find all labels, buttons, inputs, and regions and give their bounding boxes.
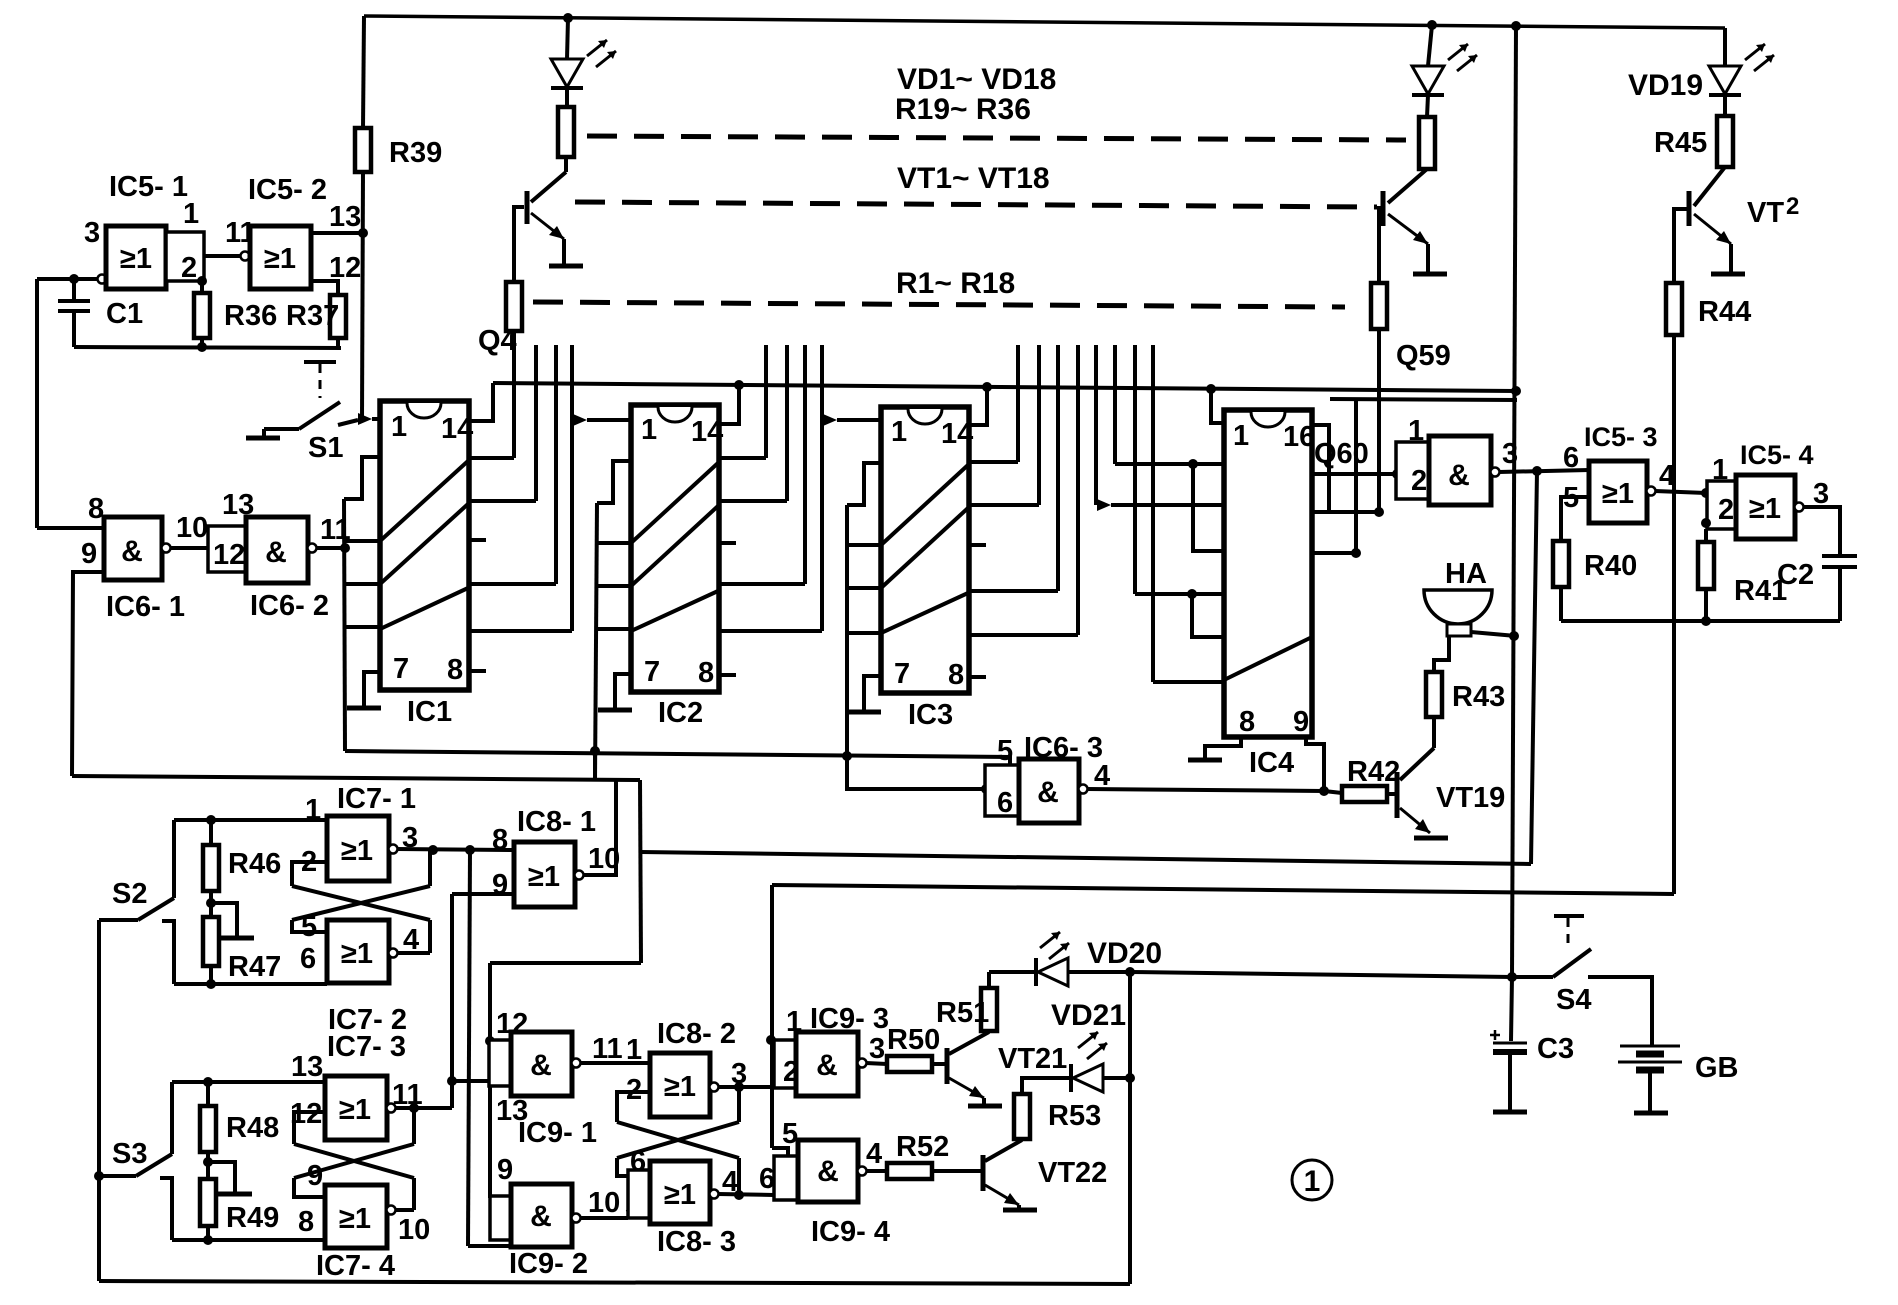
svg-text:9: 9 bbox=[492, 869, 508, 901]
resistor R51 bbox=[981, 988, 997, 1031]
resistor R39 bbox=[355, 128, 371, 172]
node C1 top bbox=[69, 274, 79, 284]
wire X1 diag a bbox=[292, 886, 430, 920]
resistor R41 bbox=[1698, 542, 1714, 589]
svg-text:1: 1 bbox=[626, 1034, 642, 1066]
wire IC6-2 out bbox=[316, 546, 344, 550]
transistor VT22 base bar bbox=[981, 1155, 986, 1191]
transistor VT21 collector bbox=[949, 1032, 989, 1054]
wire VT20 base bbox=[1674, 209, 1689, 283]
label R41 bbox=[1734, 575, 1787, 607]
wire C3 bottom bbox=[1508, 1052, 1512, 1111]
ground IC4 bbox=[1188, 758, 1222, 763]
wire R52 to VT22 bbox=[930, 1169, 983, 1173]
label S2 bbox=[112, 878, 147, 910]
wire S3 lower post bbox=[170, 1179, 174, 1240]
svg-text:≥1: ≥1 bbox=[339, 1094, 371, 1126]
label pin 4 IC8-3 bbox=[722, 1166, 738, 1198]
node IC8-2 out bbox=[734, 1082, 744, 1092]
label S4 bbox=[1556, 984, 1591, 1016]
label pin 7 IC2 bbox=[644, 656, 660, 688]
label C2 bbox=[1777, 559, 1814, 591]
gate IC8-3 bbox=[650, 1161, 710, 1224]
svg-text:9: 9 bbox=[81, 538, 97, 570]
svg-text:IC5- 4: IC5- 4 bbox=[1740, 440, 1814, 470]
label IC5-1 bbox=[109, 171, 188, 203]
label R1~R18 bbox=[896, 267, 1015, 300]
label IC7-2 bbox=[328, 1004, 407, 1036]
battery GB bbox=[1618, 1046, 1682, 1070]
wire IC3 left stub b bbox=[847, 586, 881, 590]
wire IC1 pin14 riser bbox=[469, 383, 493, 421]
IC1 diagonal c bbox=[380, 588, 468, 629]
node IC7-3 out to IC9 bbox=[447, 1076, 457, 1086]
wire bottom rail bbox=[99, 1281, 1130, 1284]
svg-text:R48: R48 bbox=[226, 1112, 279, 1144]
label pin 3 Q60 bbox=[1502, 438, 1518, 470]
wire IC2 column a bbox=[764, 345, 768, 458]
wire R44 down to HA net bbox=[1672, 335, 1676, 894]
IC IC4 bbox=[1224, 410, 1312, 737]
wire to IC2 pin1 bbox=[587, 418, 631, 422]
wire X2 diag a bbox=[294, 1144, 414, 1178]
node IC5-4 pin2 R41 bbox=[1701, 518, 1711, 528]
label pin 8 IC8-1 bbox=[492, 824, 508, 856]
box IC6-2 input junction bbox=[208, 526, 246, 572]
label pin 11 IC5-2 bbox=[225, 217, 256, 249]
svg-text:S3: S3 bbox=[112, 1138, 147, 1170]
svg-text:R49: R49 bbox=[226, 1202, 279, 1234]
wire R40 bottom bbox=[1559, 587, 1563, 621]
wire into IC1 pin1 bbox=[372, 417, 381, 421]
pin bubble IC9-2 out bbox=[572, 1214, 581, 1223]
label R46 bbox=[228, 848, 281, 880]
wire IC4 column b bbox=[1113, 345, 1117, 464]
svg-text:≥1: ≥1 bbox=[664, 1179, 696, 1211]
capacitor C1 bbox=[58, 279, 90, 347]
wire feedback bottom rail bbox=[1561, 619, 1840, 623]
IC3 diagonal c bbox=[881, 593, 968, 633]
wire Q60 feedback drop bbox=[1531, 471, 1537, 864]
node R42-IC4pin9 bbox=[1319, 786, 1329, 796]
svg-text:R47: R47 bbox=[228, 951, 281, 983]
LED VD21 bbox=[1071, 1064, 1103, 1092]
transistor VT1 emitter bbox=[531, 213, 564, 239]
svg-text:9: 9 bbox=[497, 1154, 513, 1186]
svg-text:8: 8 bbox=[298, 1206, 314, 1238]
label pin 3 IC8-2 bbox=[731, 1058, 747, 1090]
svg-text:2: 2 bbox=[181, 252, 197, 284]
label pin 8 IC6-1 bbox=[88, 493, 104, 525]
wire IC4 input c bbox=[1135, 592, 1224, 596]
node R46 top bbox=[206, 815, 216, 825]
resistor R37 bbox=[330, 295, 346, 338]
svg-text:GB: GB bbox=[1695, 1052, 1739, 1084]
wire IC4 to Q60 gate bbox=[1312, 472, 1396, 476]
svg-text:≥1: ≥1 bbox=[664, 1071, 696, 1103]
wire IC9-2 out bbox=[580, 1216, 628, 1220]
svg-text:16: 16 bbox=[1283, 421, 1315, 453]
svg-text:3: 3 bbox=[869, 1033, 885, 1065]
label pin 3 IC7-1 bbox=[402, 822, 418, 854]
pin bubble IC8-3 out bbox=[710, 1190, 719, 1199]
node IC4 input c bbox=[1187, 589, 1197, 599]
label pin 7 IC3 bbox=[894, 658, 910, 690]
svg-text:2: 2 bbox=[1786, 193, 1799, 220]
svg-text:6: 6 bbox=[759, 1163, 775, 1195]
transistor Q59 base bar bbox=[1381, 191, 1386, 226]
resistor R46 bbox=[203, 845, 219, 891]
svg-text:≥1: ≥1 bbox=[339, 1203, 371, 1235]
wire R41 bottom bbox=[1704, 589, 1708, 621]
pin bubble IC5-2 in bbox=[241, 252, 250, 261]
ground IC2 bbox=[598, 708, 632, 713]
svg-text:1: 1 bbox=[1233, 420, 1249, 452]
label pin 11 IC6-2 bbox=[320, 514, 351, 546]
resistor R43 bbox=[1426, 672, 1442, 717]
svg-text:1: 1 bbox=[891, 416, 907, 448]
wire IC5-3 pin5 feedback bbox=[1561, 497, 1589, 541]
wire X2 hook lower bbox=[294, 1178, 325, 1197]
node IC4 input b bbox=[1188, 459, 1198, 469]
label R42 bbox=[1347, 756, 1400, 788]
pin bubble IC9-3 out bbox=[858, 1059, 867, 1068]
pin bubble IC5-4 out bbox=[1795, 503, 1804, 512]
wire VT22 emitter bbox=[1017, 1205, 1021, 1208]
label R44 bbox=[1698, 296, 1751, 328]
wire R51 top bbox=[987, 972, 991, 988]
svg-text:&: & bbox=[530, 1200, 552, 1233]
svg-text:13: 13 bbox=[496, 1095, 528, 1127]
svg-text:10: 10 bbox=[176, 512, 208, 544]
IC4 diagonal bbox=[1224, 637, 1312, 680]
label pin 3 IC5-1 bbox=[84, 217, 100, 249]
wire IC6-1 out bbox=[170, 546, 208, 550]
wire to IC9-1 pin13 bbox=[452, 1079, 489, 1083]
svg-text:VD1~ VD18: VD1~ VD18 bbox=[897, 63, 1056, 96]
wire IC7-2 out bbox=[397, 951, 430, 955]
pin bubble Q60 out bbox=[1491, 468, 1500, 477]
node bus IC4 bbox=[1206, 384, 1216, 394]
label pin 1 IC5-4 bbox=[1712, 454, 1728, 486]
svg-text:9: 9 bbox=[307, 1160, 323, 1192]
svg-text:≥1: ≥1 bbox=[341, 938, 373, 970]
wire IC4 out y512 bbox=[1312, 510, 1379, 514]
label pin 8 IC3 bbox=[948, 659, 964, 691]
label R53 bbox=[1048, 1100, 1101, 1132]
wire X3 diag b bbox=[617, 1122, 739, 1158]
wire IC7-4 out bbox=[395, 1208, 414, 1212]
wire IC2 out b elbow bbox=[719, 499, 787, 503]
svg-text:R44: R44 bbox=[1698, 296, 1751, 328]
label pin 6 IC6-3 bbox=[997, 787, 1013, 819]
gate IC8-2 bbox=[650, 1053, 710, 1117]
wire feedback top bbox=[72, 776, 640, 780]
svg-text:IC5- 1: IC5- 1 bbox=[109, 171, 188, 203]
wire IC8-3 out bbox=[718, 1194, 774, 1195]
transistor Q59 emitter bbox=[1388, 214, 1428, 244]
svg-text:IC3: IC3 bbox=[908, 699, 953, 731]
wire R42 to base bbox=[1387, 792, 1395, 796]
switch S3 lower contact bbox=[160, 1176, 174, 1180]
label pin 14 IC3 bbox=[941, 418, 973, 450]
svg-text:2: 2 bbox=[1411, 465, 1427, 497]
label C1 bbox=[106, 298, 143, 330]
wire Q59 bus bbox=[1330, 399, 1517, 400]
node rail-LED1 bbox=[563, 13, 573, 23]
wire +V top rail bbox=[364, 16, 1725, 28]
svg-text:R43: R43 bbox=[1452, 681, 1505, 713]
svg-text:C3: C3 bbox=[1537, 1033, 1574, 1065]
wire IC5-4 out to C2 bbox=[1803, 507, 1840, 556]
switch S4 blade bbox=[1553, 949, 1591, 977]
wire IC2 column d bbox=[820, 345, 824, 631]
wire IC2 column b bbox=[785, 345, 789, 501]
label IC7-4 bbox=[316, 1250, 395, 1282]
svg-text:R42: R42 bbox=[1347, 756, 1400, 788]
LED Q59 light arrows bbox=[1448, 44, 1477, 71]
wire osc left drop to IC6-1 bbox=[35, 279, 39, 528]
resistor R19 (cell) bbox=[558, 107, 574, 157]
speaker HA bbox=[1424, 590, 1492, 636]
wire IC7-1 out bbox=[397, 849, 514, 850]
wire Q59 emitter bbox=[1426, 244, 1430, 272]
wire X1 right lower bbox=[428, 920, 432, 953]
wire R48-R49 bbox=[206, 1152, 210, 1179]
wire IC4 out y553 bbox=[1312, 551, 1356, 555]
svg-text:1: 1 bbox=[641, 414, 657, 446]
node y553 bbox=[1351, 548, 1361, 558]
svg-text:VT21: VT21 bbox=[998, 1043, 1067, 1075]
wire IC6-1 pin9 bbox=[72, 572, 104, 776]
label pin 16 IC4 bbox=[1283, 421, 1315, 453]
wire to IC4 input a bbox=[1111, 503, 1224, 507]
wire Q4 base link bbox=[514, 207, 524, 282]
wire VD-R36 (Q59) bbox=[1427, 95, 1428, 117]
wire IC3 column d bbox=[1076, 345, 1080, 635]
gate IC9-2 bbox=[511, 1184, 572, 1247]
wire S1 gnd drop bbox=[262, 429, 266, 437]
wire IC1 column c bbox=[554, 345, 558, 584]
label pin 9 IC4 bbox=[1293, 706, 1309, 738]
svg-text:13: 13 bbox=[291, 1051, 323, 1083]
svg-text:&: & bbox=[1448, 459, 1470, 492]
gate IC6-3 bbox=[1019, 759, 1079, 823]
svg-text:≥1: ≥1 bbox=[120, 243, 152, 275]
svg-text:≥1: ≥1 bbox=[264, 243, 296, 275]
svg-text:1: 1 bbox=[305, 794, 321, 826]
wire IC2col drop bbox=[593, 751, 597, 780]
wire x1356 vertical bbox=[1354, 400, 1358, 553]
wire R47 bottom bbox=[209, 966, 213, 984]
box IC9-2 input junction bbox=[490, 1196, 511, 1240]
label VD1~VD18 bbox=[897, 63, 1056, 96]
ground VT20 bbox=[1711, 272, 1745, 277]
label pin 10 IC6-1 bbox=[176, 512, 208, 544]
svg-text:1: 1 bbox=[391, 411, 407, 443]
node IC7-3 out X bbox=[409, 1103, 419, 1113]
LED VD18 (Q59 cell) bbox=[1412, 66, 1444, 95]
wire IC5-3 out bbox=[1655, 491, 1706, 493]
IC2 diagonal c bbox=[631, 591, 718, 631]
wire VD21 to node bbox=[1103, 1076, 1130, 1080]
wire IC2 column c bbox=[803, 345, 807, 584]
svg-text:Q59: Q59 bbox=[1396, 340, 1451, 372]
label pin 9 IC9-2 bbox=[497, 1154, 513, 1186]
wire Q4 column bbox=[512, 331, 516, 458]
wire S1 to IC1 pin1 bbox=[338, 420, 358, 425]
label pin 3 IC5-4 bbox=[1813, 478, 1829, 510]
wire IC3 pin14 riser bbox=[969, 387, 987, 425]
label VT1~VT18 bbox=[897, 162, 1050, 195]
pin bubble IC8-1 out bbox=[575, 871, 584, 880]
svg-text:14: 14 bbox=[441, 413, 473, 445]
wire pin2 to R41 bbox=[1704, 529, 1708, 542]
node Q60 gate input bbox=[1392, 469, 1402, 479]
wire VT1 emitter bbox=[562, 239, 566, 264]
label pin 5 IC6-3 bbox=[997, 735, 1013, 767]
wire IC3 pin8 stub bbox=[969, 675, 986, 679]
wire S2 main bbox=[99, 918, 138, 922]
label pin 6 IC8-3 bbox=[630, 1146, 646, 1178]
node HA main vertical bbox=[1509, 631, 1519, 641]
node R48 top bbox=[203, 1077, 213, 1087]
label pin 1 Q60 bbox=[1408, 415, 1424, 447]
svg-text:6: 6 bbox=[1563, 442, 1579, 474]
wire S1 left bbox=[264, 427, 299, 431]
wire bus to IC6-3 pin5 bbox=[345, 751, 1010, 765]
label pin 3 IC9-3 bbox=[869, 1033, 885, 1065]
label R19~R36 bbox=[895, 93, 1031, 126]
svg-text:VD19: VD19 bbox=[1628, 69, 1703, 102]
gate IC7-1 bbox=[327, 816, 389, 881]
wire IC2 left stub a bbox=[597, 541, 631, 545]
resistor R36 (cell) bbox=[1419, 117, 1435, 169]
wire IC2 out a elbow bbox=[719, 456, 766, 460]
wire IC2 out d elbow bbox=[719, 629, 822, 633]
label IC5-3 bbox=[1584, 422, 1658, 452]
gate IC5-4 bbox=[1736, 475, 1795, 539]
wire IC7-4 pin8 net bbox=[172, 1238, 325, 1242]
svg-text:10: 10 bbox=[588, 1187, 620, 1219]
svg-text:2: 2 bbox=[1718, 494, 1734, 526]
node IC3 vertical on bus bbox=[842, 751, 852, 761]
resistor R52 bbox=[887, 1163, 932, 1179]
wire X3 hook upper bbox=[617, 1092, 650, 1122]
LED VD20 bbox=[1036, 958, 1068, 986]
label pin 9 IC8-1 bbox=[492, 869, 508, 901]
label pin 5 IC8-3 bbox=[625, 1190, 641, 1222]
switch S4 actuator bbox=[1554, 916, 1584, 948]
switch S2 blade bbox=[138, 898, 174, 920]
label pin 4 wire bbox=[866, 1138, 882, 1170]
svg-text:11: 11 bbox=[592, 1033, 623, 1065]
svg-text:R51: R51 bbox=[936, 997, 989, 1029]
wire Q59 base column bbox=[1377, 329, 1381, 512]
svg-text:1: 1 bbox=[183, 198, 199, 230]
label pin 4 IC7-2 bbox=[403, 924, 419, 956]
label pin 14 IC2 bbox=[691, 416, 723, 448]
wire IC4 input b bbox=[1115, 462, 1224, 466]
wire mid to gnd bbox=[211, 903, 237, 936]
wire osc input node bbox=[37, 277, 74, 281]
wire osc ground rail bbox=[74, 347, 341, 348]
label R51 bbox=[936, 997, 989, 1029]
ground R48/R49 bbox=[218, 1192, 252, 1197]
label IC9-1 bbox=[518, 1117, 597, 1149]
ground IC3 bbox=[847, 710, 881, 715]
wire S3 main bbox=[99, 1174, 136, 1178]
label R39 bbox=[389, 137, 442, 169]
IC IC1 bbox=[380, 401, 469, 690]
gate IC9-4 bbox=[798, 1140, 858, 1202]
wire IC1 out b elbow bbox=[470, 499, 536, 503]
label pin 5 IC5-3 bbox=[1563, 482, 1579, 514]
label pin 7 IC1 bbox=[393, 653, 409, 685]
svg-text:4: 4 bbox=[866, 1138, 882, 1170]
ground VT22 bbox=[1003, 1208, 1037, 1213]
svg-text:&: & bbox=[265, 536, 287, 569]
wire x772 to IC9-4 pin5 bbox=[772, 1148, 788, 1156]
wire IC2 pin14 riser bbox=[719, 385, 739, 424]
wire IC1 pin4 hook bbox=[344, 457, 380, 499]
svg-text:1: 1 bbox=[1304, 1165, 1321, 1198]
svg-text:IC5- 3: IC5- 3 bbox=[1584, 422, 1658, 452]
wire feedback B bbox=[772, 885, 1674, 894]
label pin 4 IC6-3 bbox=[1094, 760, 1110, 792]
wire VD1-R19 bbox=[565, 88, 569, 107]
wire IC1 pin7 gnd bbox=[364, 672, 380, 706]
pin bubble IC6-1 out bbox=[162, 544, 171, 553]
svg-text:IC6- 1: IC6- 1 bbox=[106, 591, 185, 623]
label GB bbox=[1695, 1052, 1739, 1084]
svg-text:IC8- 1: IC8- 1 bbox=[517, 806, 596, 838]
resistor R45 bbox=[1717, 116, 1733, 167]
wire cathode column bbox=[1128, 972, 1132, 1284]
gate IC6-1 bbox=[104, 517, 162, 580]
svg-text:R45: R45 bbox=[1654, 127, 1707, 159]
label R47 bbox=[228, 951, 281, 983]
wire IC9-2 pin8 elbow bbox=[468, 1244, 511, 1248]
ground R46/R47 bbox=[220, 936, 254, 941]
wire pin2 to R36 bbox=[200, 281, 204, 293]
wire IC4 dogleg b bbox=[1193, 464, 1224, 551]
gate Q60 (IC6-4) bbox=[1429, 436, 1491, 505]
label Q59 bbox=[1396, 340, 1451, 372]
wire rail to VD19 bbox=[1723, 28, 1727, 66]
label pin 4 IC5-3 bbox=[1659, 460, 1675, 492]
label pin 8 IC9-2 bbox=[490, 1206, 506, 1238]
wire IC1 left vertical bbox=[344, 499, 345, 751]
svg-text:IC9- 2: IC9- 2 bbox=[509, 1248, 588, 1280]
wire x772 vertical bbox=[770, 885, 774, 1148]
wire IC8-2 out bbox=[718, 1085, 786, 1089]
svg-text:&: & bbox=[530, 1049, 552, 1082]
svg-text:6: 6 bbox=[300, 943, 316, 975]
svg-text:R52: R52 bbox=[896, 1131, 949, 1163]
label pin 12 IC5-2 bbox=[329, 252, 361, 284]
label R52 bbox=[896, 1131, 949, 1163]
label pin 1 IC9-3 bbox=[786, 1006, 802, 1038]
svg-text:HA: HA bbox=[1445, 558, 1487, 590]
wire IC4 input d bbox=[1153, 680, 1224, 684]
label pin 6 IC7-2 bbox=[300, 943, 316, 975]
wire IC2 pin8 stub bbox=[719, 673, 736, 677]
svg-text:IC4: IC4 bbox=[1249, 747, 1294, 779]
wire clock bus over ICs bbox=[493, 383, 1516, 391]
label pin 9 IC6-1 bbox=[81, 538, 97, 570]
gate IC6-2 bbox=[246, 517, 308, 583]
